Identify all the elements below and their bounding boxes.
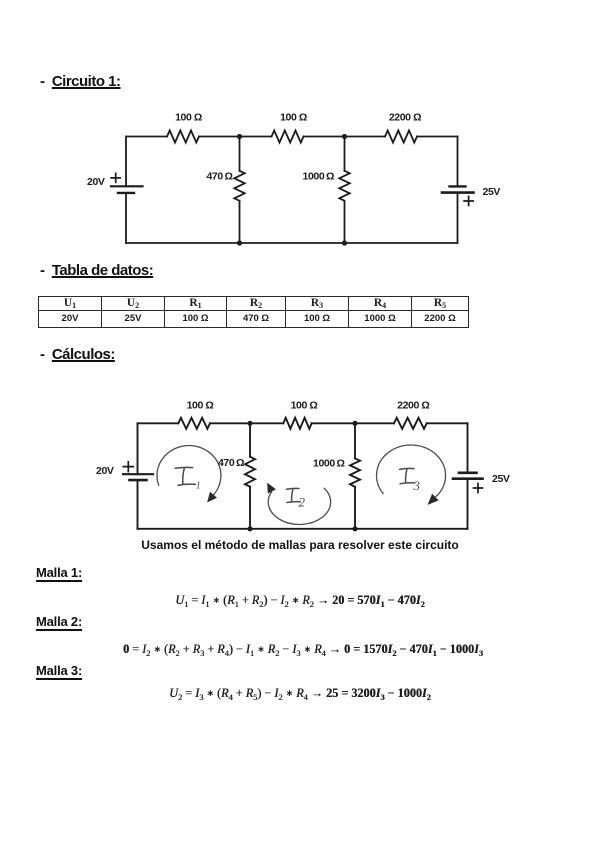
node B junction dot bbox=[342, 134, 347, 139]
node A junction dot bbox=[237, 134, 242, 139]
heading: Tabla de datos bbox=[40, 262, 153, 279]
resistor R3 2200ohm bbox=[385, 131, 417, 143]
battery V1 20V short plate bbox=[130, 479, 147, 482]
data table bbox=[38, 296, 469, 328]
resistor R2 100ohm bbox=[272, 131, 304, 143]
wire right vertical lower bbox=[467, 479, 469, 529]
caption under circuit 2 bbox=[0, 538, 600, 552]
wire top rail right segment bbox=[417, 136, 458, 138]
svg-text:2200 Ω: 2200 Ω bbox=[389, 111, 421, 123]
svg-text:20V: 20V bbox=[87, 176, 105, 188]
wire resistor R4 470ohm branch upper bbox=[249, 423, 251, 456]
svg-text:100 Ω: 100 Ω bbox=[187, 399, 214, 411]
mesh loop I1 arc bbox=[157, 446, 221, 495]
wire top rail R2 to R3 bbox=[304, 136, 386, 138]
battery V2 25V short plate bbox=[450, 185, 466, 187]
wire resistor R5 branch lower bbox=[354, 487, 356, 529]
svg-text:470 Ω: 470 Ω bbox=[206, 171, 232, 183]
heading: Circuito 1 bbox=[40, 73, 121, 90]
node C junction dot bottom bbox=[237, 240, 242, 245]
battery V1 20V long plate bbox=[123, 473, 153, 475]
Malla 2 bbox=[36, 615, 82, 630]
resistor R5 1000ohm bbox=[339, 171, 349, 201]
current label I1 glyph bbox=[175, 467, 195, 485]
wire resistor R4 470ohm branch upper bbox=[239, 137, 241, 171]
wire resistor R4 branch lower bbox=[239, 201, 241, 243]
plus sign V1 bbox=[123, 462, 133, 472]
svg-text:20V: 20V bbox=[96, 465, 114, 477]
wire resistor R5 1000ohm branch upper bbox=[354, 423, 356, 458]
resistor R2 100ohm bbox=[283, 418, 311, 429]
svg-text:470 Ω: 470 Ω bbox=[218, 457, 244, 469]
resistor R4 470ohm bbox=[245, 457, 255, 487]
battery V1 20V long plate bbox=[111, 185, 143, 187]
wire left vertical upper bbox=[137, 423, 139, 474]
Malla 3 bbox=[36, 664, 82, 679]
battery V2 25V long plate bbox=[442, 191, 474, 194]
wire top rail left segment bbox=[138, 422, 179, 424]
svg-text:100 Ω: 100 Ω bbox=[291, 400, 318, 412]
svg-text:1: 1 bbox=[196, 481, 201, 492]
wire top rail R2 to R3 bbox=[312, 422, 394, 424]
mesh arrow I3 bbox=[428, 494, 439, 505]
wire top rail R1 to node A bbox=[210, 422, 283, 424]
mesh arrow I1 bbox=[207, 492, 217, 503]
wire right vertical lower bbox=[457, 193, 459, 243]
mesh loop I3 arc bbox=[377, 445, 446, 497]
svg-text:25V: 25V bbox=[483, 186, 501, 198]
svg-text:1000 Ω: 1000 Ω bbox=[313, 458, 344, 470]
resistor R4 470ohm bbox=[234, 171, 244, 201]
circuit 1 schematic bbox=[80, 100, 520, 255]
svg-text:3: 3 bbox=[413, 478, 421, 493]
circuit 2 schematic with mesh currents bbox=[90, 390, 520, 540]
wire top rail right segment bbox=[427, 422, 468, 424]
wire bottom rail bbox=[138, 528, 468, 530]
svg-text:2: 2 bbox=[299, 495, 306, 510]
current label I3 glyph bbox=[400, 468, 415, 483]
wire top rail R1 to node A bbox=[199, 136, 272, 138]
battery V2 25V short plate bbox=[459, 471, 477, 474]
resistor R3 2200ohm bbox=[394, 418, 427, 429]
svg-text:2200 Ω: 2200 Ω bbox=[397, 400, 429, 412]
wire left vertical lower bbox=[125, 193, 127, 243]
node B junction dot top bbox=[352, 421, 357, 426]
wire left vertical lower bbox=[137, 480, 139, 529]
node C junction dot bottom bbox=[247, 526, 252, 531]
node D junction dot bottom bbox=[342, 240, 347, 245]
wire bottom rail bbox=[126, 242, 458, 244]
mesh loop I2 arc bbox=[268, 488, 330, 525]
svg-text:100 Ω: 100 Ω bbox=[175, 112, 202, 124]
heading: Calculos bbox=[40, 346, 115, 363]
wire right vertical upper bbox=[457, 137, 459, 187]
svg-text:25V: 25V bbox=[492, 473, 510, 485]
battery V1 20V short plate bbox=[118, 192, 134, 194]
wire resistor R4 branch lower bbox=[249, 487, 251, 529]
plus sign V2 bbox=[464, 197, 473, 206]
wire top rail left segment bbox=[126, 136, 167, 138]
node A junction dot top bbox=[247, 421, 252, 426]
Malla 1 bbox=[36, 566, 82, 581]
current label I2 glyph bbox=[287, 488, 301, 502]
node D junction dot bottom bbox=[352, 526, 357, 531]
wire resistor R5 1000ohm branch upper bbox=[344, 137, 346, 171]
plus sign V2 bbox=[474, 484, 483, 493]
plus sign V1 bbox=[111, 173, 120, 182]
svg-text:100 Ω: 100 Ω bbox=[280, 112, 307, 124]
wire right vertical upper bbox=[467, 423, 469, 473]
battery V2 25V long plate bbox=[453, 477, 483, 480]
svg-text:1000 Ω: 1000 Ω bbox=[303, 171, 334, 183]
resistor R5 1000ohm bbox=[350, 458, 360, 486]
wire left vertical upper bbox=[125, 137, 127, 187]
resistor R1 100ohm bbox=[178, 418, 210, 429]
mesh arrow I2 bbox=[267, 483, 276, 494]
wire resistor R5 branch lower bbox=[344, 201, 346, 243]
resistor R1 100ohm bbox=[167, 131, 199, 143]
